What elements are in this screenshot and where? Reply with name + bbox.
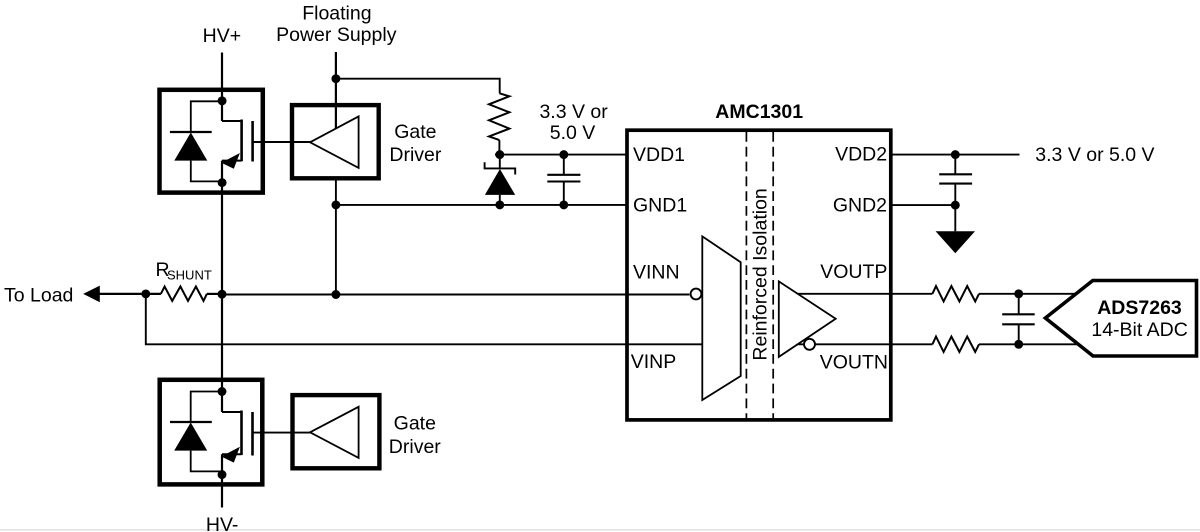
svg-text:Gate: Gate — [394, 412, 436, 434]
svg-text:Gate: Gate — [394, 121, 436, 143]
svg-text:VDD1: VDD1 — [633, 144, 685, 166]
svg-text:VINP: VINP — [631, 351, 677, 373]
svg-text:3.3 V or: 3.3 V or — [539, 101, 608, 123]
svg-text:HV-: HV- — [206, 514, 239, 532]
svg-text:GND1: GND1 — [633, 195, 687, 217]
svg-text:5.0 V: 5.0 V — [550, 122, 596, 144]
svg-text:SHUNT: SHUNT — [167, 268, 212, 283]
svg-text:Driver: Driver — [389, 144, 442, 166]
svg-text:Power Supply: Power Supply — [276, 24, 397, 46]
svg-text:Floating: Floating — [302, 3, 371, 25]
svg-text:HV+: HV+ — [203, 25, 241, 47]
svg-text:To Load: To Load — [4, 285, 73, 307]
svg-text:Reinforced Isolation: Reinforced Isolation — [750, 188, 772, 360]
svg-text:VOUTN: VOUTN — [820, 352, 888, 374]
svg-text:3.3 V or 5.0 V: 3.3 V or 5.0 V — [1035, 144, 1154, 166]
svg-text:GND2: GND2 — [833, 194, 887, 216]
svg-text:VDD2: VDD2 — [835, 144, 887, 166]
svg-text:ADS7263: ADS7263 — [1097, 297, 1182, 319]
svg-text:14-Bit ADC: 14-Bit ADC — [1091, 319, 1187, 341]
svg-text:VINN: VINN — [633, 262, 680, 284]
svg-text:VOUTP: VOUTP — [820, 261, 887, 283]
svg-text:Driver: Driver — [389, 436, 442, 458]
svg-text:AMC1301: AMC1301 — [715, 101, 803, 123]
